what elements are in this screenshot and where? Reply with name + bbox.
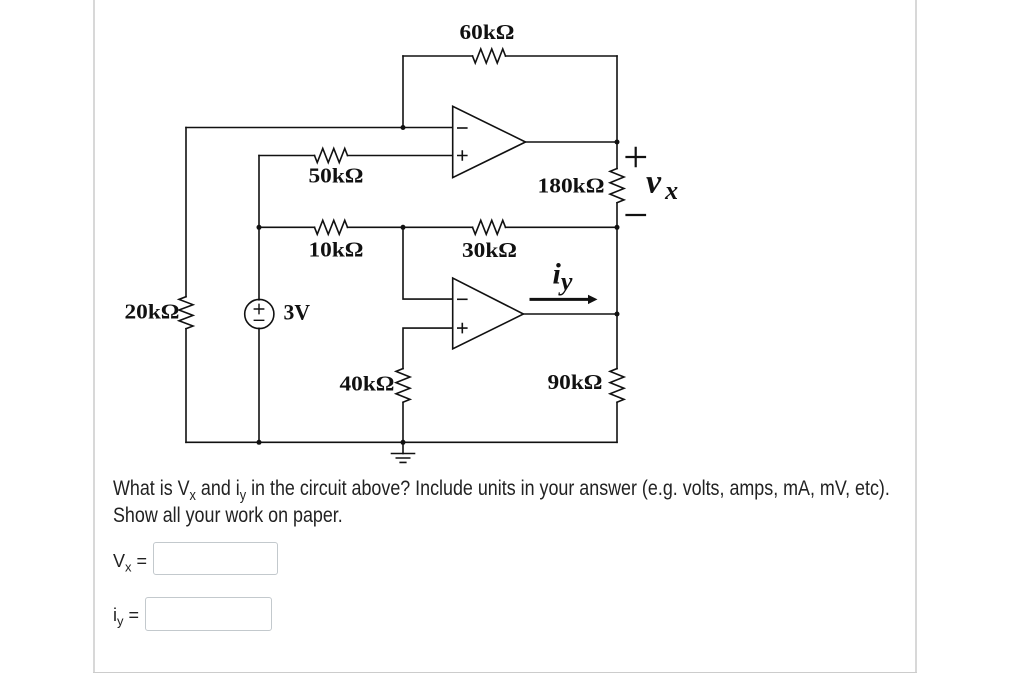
wire: middle row from rail 2 to 10k [259,226,315,228]
wire: U2 output to right rail [523,313,617,315]
wire: U1 output to right rail [526,141,618,143]
svg-text:3V: 3V [284,300,311,325]
wire: right rail bottom segment [616,403,618,443]
resistor 50kΩ (horizontal) [315,149,348,163]
resistor 20kΩ (vertical, left rail) [179,297,193,329]
junction middle row at rail 2 [257,225,262,230]
current arrow iy [531,295,598,304]
wire: left rail lower segment [185,329,187,443]
wire: vertical drop from feedback row to U1 inverting input node [402,56,404,128]
wire: left rail top horizontal run to U1 inverting input [186,127,453,129]
junction at U1 output on right rail [615,140,620,145]
wire: top feedback row from node above op-amp U1 input to 60k [403,55,473,57]
wire: middle row from 30k to right rail [506,226,618,228]
junction middle row at right rail [615,225,620,230]
svg-text:vx: vx [646,163,678,205]
wire: drop from middle row to U2 inverting input [403,227,453,299]
resistor 40kΩ (vertical) [396,369,410,403]
svg-text:30kΩ: 30kΩ [462,238,517,262]
junction middle row above U2 [401,225,406,230]
wire: 40k to bottom rail [402,403,404,443]
resistor 10kΩ (horizontal) [315,220,348,234]
card bottom border [93,672,917,673]
svg-text:90kΩ: 90kΩ [548,370,603,394]
junction bottom rail at ground branch [401,440,406,445]
junction at U2 output on right rail [615,312,620,317]
wire: rail 2 upper segment [258,156,260,300]
card left border [93,0,95,672]
svg-text:40kΩ: 40kΩ [340,372,395,396]
svg-text:180kΩ: 180kΩ [538,174,605,198]
wire: U2 non-inverting input to 40k branch [403,328,453,369]
wire: left rail upper segment [185,128,187,297]
op-amp U2 (bottom) [453,278,524,349]
wire: middle row between 10k and 30k [348,226,473,228]
ground [392,442,415,462]
question text [113,476,931,529]
wire: U1 non-inverting input row from rail 2 to 50k [259,155,315,157]
junction at U1 inverting input branch [401,125,406,130]
wire: from 50k to U1 non-inverting input [348,155,453,157]
svg-text:50kΩ: 50kΩ [309,164,364,188]
svg-text:20kΩ: 20kΩ [125,300,180,324]
svg-text:60kΩ: 60kΩ [460,20,515,44]
answer input box Vx [153,542,278,575]
answer input box iy [145,597,272,631]
wire: bottom rail [186,441,617,443]
op-amp U1 (top) [453,106,526,177]
resistor 90kΩ (vertical, right rail) [610,369,624,403]
answer label Vx [113,551,147,572]
resistor 180kΩ (vertical, right rail) [610,169,624,203]
plus sign of vx [627,148,646,166]
card right border [915,0,917,672]
junction bottom rail at rail 2 [257,440,262,445]
wire: right rail between 180k and 90k [616,203,618,369]
svg-text:iy: iy [553,257,573,296]
resistor 30kΩ (horizontal) [473,220,506,234]
wire: right rail from feedback row down to 180k [616,56,618,169]
minus sign of vx [627,214,646,216]
wire: rail 2 lower segment [258,328,260,442]
resistor 60kΩ (horizontal, feedback) [473,49,506,63]
answer label iy [113,605,139,626]
wire: top feedback row from 60k to right rail [506,55,618,57]
svg-text:10kΩ: 10kΩ [309,238,364,262]
voltage source 3V [245,299,274,328]
